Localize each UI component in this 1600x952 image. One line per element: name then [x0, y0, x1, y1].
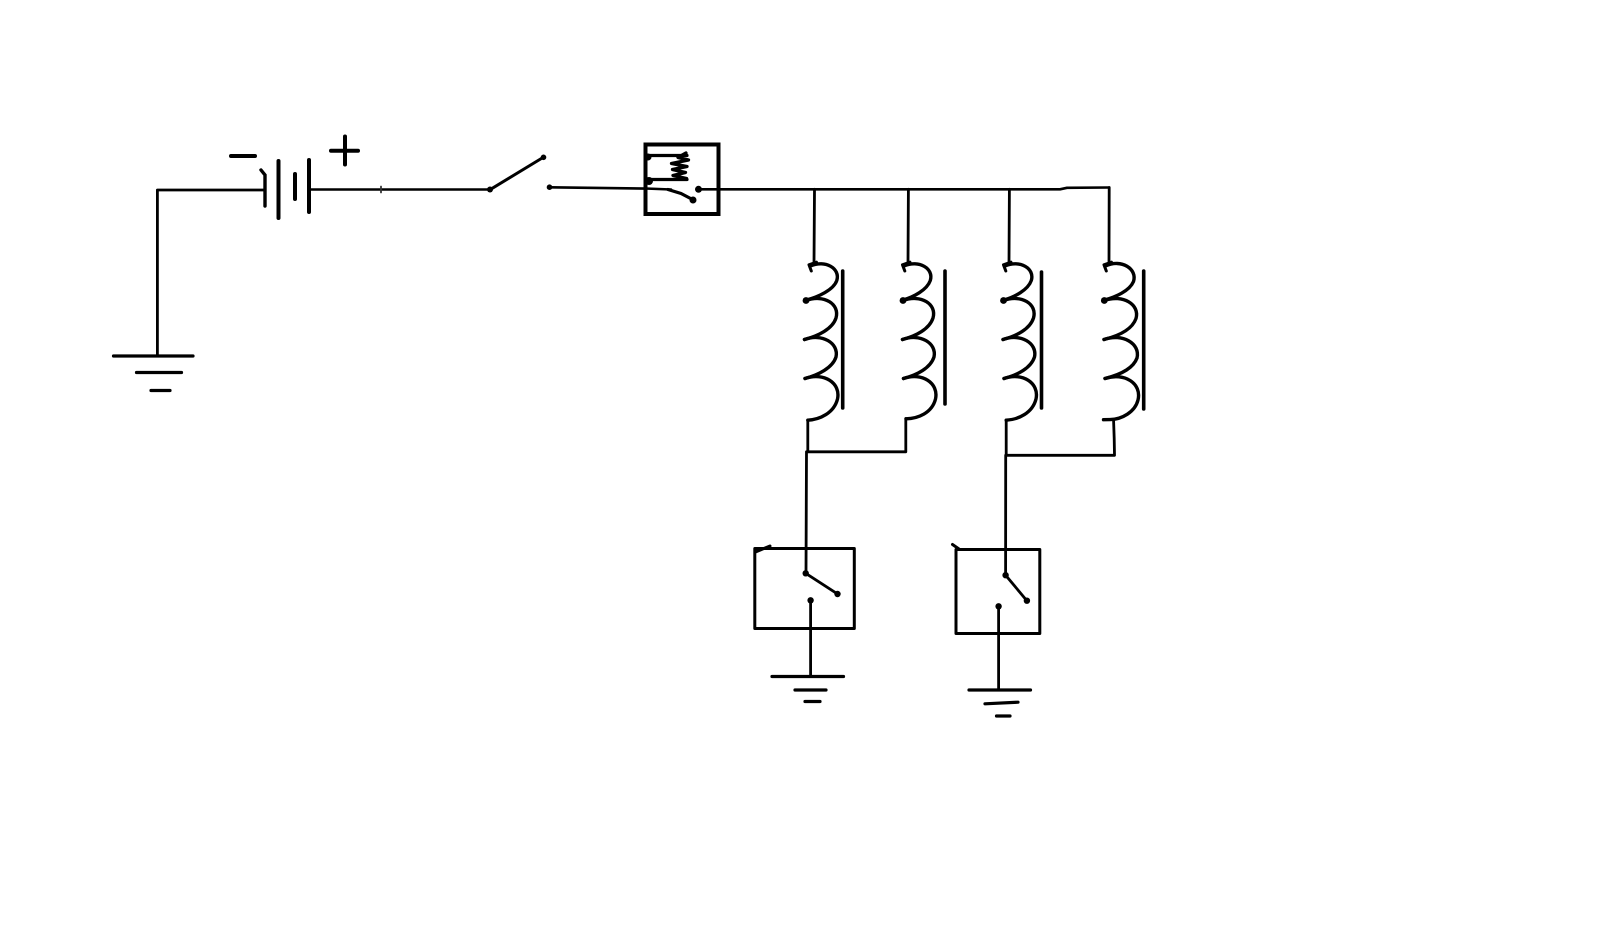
switch S2 box [755, 546, 855, 629]
inductor L4 [1101, 262, 1139, 420]
wire drop to L2 [907, 189, 910, 262]
inductor L2 [900, 262, 936, 419]
inductor L3 [1000, 262, 1036, 420]
switch S1 [487, 155, 552, 193]
ground below S3 [969, 690, 1031, 716]
switch S3 box [953, 545, 1040, 634]
wire to switch S2 [805, 452, 808, 573]
wire L3-L4 bottom link [1006, 420, 1114, 455]
wire drop to L1 [813, 189, 816, 263]
wire drop to L3 [1008, 189, 1011, 263]
core of L2 [943, 271, 947, 404]
switch S3 [995, 572, 1030, 610]
wire battery negative to ground [157, 190, 264, 355]
ground (battery negative) [114, 356, 194, 391]
wire S3 to ground [997, 606, 1000, 690]
ground below S2 [772, 677, 844, 702]
wire L1-L2 bottom link [808, 419, 906, 452]
relay U1 coil [645, 153, 689, 185]
wire main bus [719, 188, 1110, 190]
wire drop to L4 [1108, 188, 1111, 262]
relay U1 contact [646, 186, 719, 204]
inductor L1 [803, 262, 838, 420]
core of L4 [1142, 271, 1146, 409]
battery B1 [261, 160, 309, 218]
core of L1 [841, 271, 845, 408]
battery plus label [331, 137, 358, 165]
battery minus label [231, 154, 255, 158]
wire switch to relay [550, 187, 646, 188]
relay U1 box [646, 145, 719, 215]
core of L3 [1040, 272, 1044, 408]
switch S2 [803, 570, 841, 603]
wire to switch S3 [1004, 455, 1007, 575]
wire battery to switch [309, 187, 489, 193]
wire S2 to ground [809, 600, 812, 676]
